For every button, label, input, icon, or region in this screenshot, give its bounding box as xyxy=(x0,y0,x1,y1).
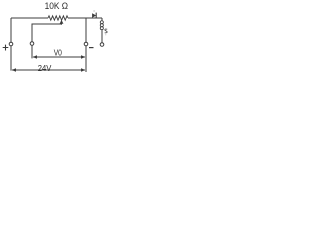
svg-text:10K Ω: 10K Ω xyxy=(45,1,69,11)
svg-text:V0: V0 xyxy=(54,48,62,58)
svg-text:24V: 24V xyxy=(38,64,52,74)
